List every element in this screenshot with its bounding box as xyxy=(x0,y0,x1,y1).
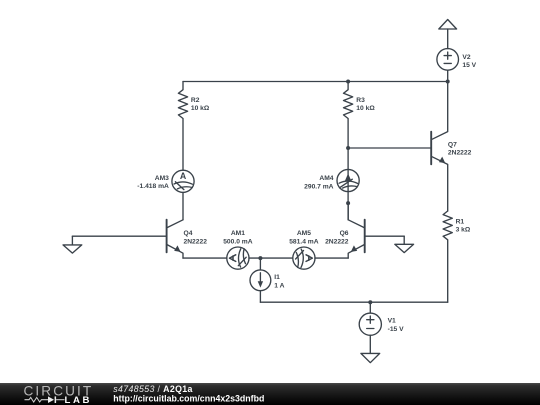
svg-text:10 kΩ: 10 kΩ xyxy=(191,105,210,112)
svg-text:2N2222: 2N2222 xyxy=(184,238,208,245)
svg-text:AM1: AM1 xyxy=(231,230,245,237)
svg-text:-15 V: -15 V xyxy=(388,326,405,333)
svg-text:R2: R2 xyxy=(191,97,200,104)
svg-text:A: A xyxy=(180,171,187,181)
svg-text:V1: V1 xyxy=(388,318,396,325)
svg-text:-1.418 mA: -1.418 mA xyxy=(137,183,169,190)
svg-text:R3: R3 xyxy=(356,97,365,104)
svg-text:500.0 mA: 500.0 mA xyxy=(223,238,253,245)
svg-text:R1: R1 xyxy=(456,218,465,225)
svg-text:I1: I1 xyxy=(274,274,280,281)
svg-text:3 kΩ: 3 kΩ xyxy=(456,227,471,234)
svg-text:AM4: AM4 xyxy=(319,175,333,182)
svg-text:AM3: AM3 xyxy=(155,175,169,182)
svg-text:10 kΩ: 10 kΩ xyxy=(356,105,375,112)
svg-text:2N2222: 2N2222 xyxy=(325,238,349,245)
svg-text:15 V: 15 V xyxy=(462,62,476,69)
svg-text:Q6: Q6 xyxy=(340,230,349,237)
svg-text:LAB: LAB xyxy=(65,395,93,405)
svg-text:Q7: Q7 xyxy=(448,141,457,148)
svg-text:1 A: 1 A xyxy=(274,283,284,290)
svg-text:s4748553 / A2Q1a: s4748553 / A2Q1a xyxy=(113,384,192,394)
svg-text:AM5: AM5 xyxy=(297,230,311,237)
svg-text:581.4 mA: 581.4 mA xyxy=(289,238,319,245)
svg-text:V2: V2 xyxy=(462,54,470,61)
svg-text:2N2222: 2N2222 xyxy=(448,150,472,157)
svg-text:Q4: Q4 xyxy=(184,230,193,237)
svg-text:http://circuitlab.com/cnn4x2s3: http://circuitlab.com/cnn4x2s3dnfbd xyxy=(113,394,264,404)
svg-text:290.7 mA: 290.7 mA xyxy=(304,183,334,190)
